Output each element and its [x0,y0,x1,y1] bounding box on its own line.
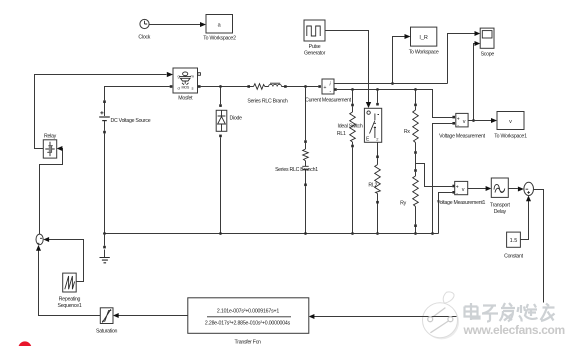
wire Clock to To Workspace2 [149,22,206,27]
resistor Rx branch [404,88,418,169]
svg-text:+: + [324,85,327,91]
svg-text:Series RLC Branch1: Series RLC Branch1 [275,167,318,173]
svg-text:Transport: Transport [490,203,511,209]
wire Transfer Fcn to Saturation [113,313,188,318]
svg-text:www.elecfans.com: www.elecfans.com [463,323,565,337]
svg-text:2.101e-007s²+0.0009167s+1: 2.101e-007s²+0.0009167s+1 [217,309,279,315]
svg-text:Pulse: Pulse [309,44,321,50]
wire Voltage Measurement - to bottom bus [431,124,452,235]
wire bus1 to Scope input 1 [448,31,481,84]
series RLC branch (horizontal) [247,83,288,104]
saturation block [96,308,118,335]
svg-text:To Workspace1: To Workspace1 [494,134,527,140]
wire VM1 to To Workspace1 [468,118,497,123]
svg-text:RL1: RL1 [337,131,346,137]
svg-text:Mosfet: Mosfet [178,96,193,102]
wire Relay output to Mosfet gate [35,72,174,149]
svg-text:1.5: 1.5 [510,238,518,244]
svg-text:I_R: I_R [419,35,428,41]
svg-text:Repeating: Repeating [59,297,81,303]
svg-text:Generator: Generator [304,51,326,57]
svg-text:Scope: Scope [481,52,495,58]
dc voltage source [99,100,151,133]
svg-text:2.28e-017s³+2.885e-010s²+0.000: 2.28e-017s³+2.885e-010s²+0.0000004s [205,321,291,327]
wire Sum2 to Transfer Fcn [309,190,544,320]
constant 1.5 [504,232,524,259]
svg-text:Saturation: Saturation [96,329,118,335]
wire Voltage Measurement to Scope input 2 [472,41,480,122]
mosfet U1 [173,68,200,102]
svg-text:Sequence1: Sequence1 [58,303,82,309]
clock Clock [138,19,150,40]
wire bus2 (physical) to Voltage Measurement + [334,88,452,117]
resistor RL2 branch [368,142,380,235]
voltage measurement VM1 [439,113,486,139]
svg-text:Diode: Diode [230,116,243,122]
resistor Ry branch [400,169,418,235]
wire VM2 to Transport Delay [468,186,492,191]
watermark red dot bottom-left [18,341,31,346]
svg-text:To Workspace: To Workspace [409,50,439,56]
svg-text:RL2: RL2 [368,182,377,188]
wire DC source to bottom bus [104,133,106,233]
wire bus1 (current signal) [334,83,448,85]
svg-text:Clock: Clock [138,35,150,41]
To Workspace2 block [203,15,236,42]
wire Sum1 output to Relay input [40,146,63,234]
svg-text:Delay: Delay [494,209,507,215]
sum junction S2 [524,182,534,195]
watermark white glow backdrop [455,303,570,341]
wire Constant to Sum2 [520,196,531,240]
svg-text:Voltage Measurement1: Voltage Measurement1 [437,200,486,206]
svg-text:v: v [462,187,465,193]
current measurement CM [305,79,352,104]
transport delay TD [490,178,511,215]
svg-text:MOS: MOS [182,86,190,90]
svg-text:Ry: Ry [400,201,406,207]
svg-text:Transfer Fcn: Transfer Fcn [234,340,261,346]
svg-text:DC Voltage Source: DC Voltage Source [111,118,151,124]
wire Rx/Ry node to Voltage Measurement1 + [416,164,453,187]
resistor RL1 branch [350,88,356,235]
transfer fcn TF [188,298,309,346]
svg-text:Constant: Constant [504,254,524,260]
diode D1 branch [216,85,242,233]
watermark chinese text 电子发烧友 [465,303,555,322]
svg-text:d: d [178,86,180,91]
wire Saturation to Sum1 [36,245,100,316]
svg-text:Rx: Rx [404,129,410,135]
To Workspace block I_R [409,27,439,55]
wire Transport Delay to Sum2 [508,187,524,192]
wire bus1 to To Workspace (I_R) [391,34,410,85]
svg-text:To Workspace2: To Workspace2 [203,36,236,42]
watermark elecfans logo [422,292,459,339]
ideal switch U2 [337,88,382,143]
svg-text:Voltage Measurement: Voltage Measurement [439,134,486,140]
voltage measurement VM2 [437,181,486,206]
To Workspace1 block [494,112,527,140]
svg-text:v: v [463,119,466,125]
wire Pulse Generator to Ideal Switch gate [325,31,371,109]
svg-text:Relay: Relay [44,134,57,140]
sum junction S1 [36,234,43,245]
svg-text:Ideal Switch: Ideal Switch [338,123,363,129]
pulse generator [304,20,326,57]
svg-text:s: s [192,86,194,91]
wire Mosfet s to Current Measurement [198,85,318,88]
series RLC branch1 (vertical R+C) [275,85,318,233]
svg-text:Series RLC Branch: Series RLC Branch [247,99,288,105]
svg-text:g: g [178,74,180,79]
svg-text:v: v [509,119,512,125]
watermark url www.elecfans.com [463,323,565,337]
bottom bus wire [103,232,438,235]
wire VM2 - to bottom bus [439,193,453,234]
wire DC source to Mosfet d [105,85,173,100]
repeating sequence RS1 [58,273,82,309]
relay block [43,134,56,159]
wire RS1 to Sum1 [43,237,83,282]
svg-text:Current Measurement: Current Measurement [305,98,352,104]
scope Scope [480,28,494,57]
ground symbol [100,234,110,263]
